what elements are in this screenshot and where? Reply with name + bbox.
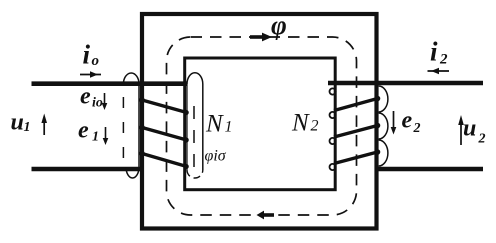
wire bottom-left (N1 to u1) xyxy=(32,167,143,172)
winding N2 turn 3 xyxy=(334,149,380,163)
svg-text:e: e xyxy=(80,84,91,110)
svg-text:2: 2 xyxy=(311,118,319,135)
svg-text:N: N xyxy=(291,110,310,137)
winding N1 turn 1 (bar with junction dots) xyxy=(139,97,189,115)
label u_1 with voltage arrow xyxy=(11,110,48,136)
label i_o with current arrow xyxy=(80,40,101,78)
flux arrow bottom (pointing left) xyxy=(257,211,275,220)
transformer core window (inner outline) xyxy=(185,58,336,190)
flux path phi (dashed loop) xyxy=(167,37,357,215)
svg-text:e: e xyxy=(78,118,89,144)
winding N2 hooks (inner side) xyxy=(330,88,336,170)
wire top-right (N2 to u2) xyxy=(328,81,483,86)
svg-text:2: 2 xyxy=(478,132,486,147)
label N2 xyxy=(291,110,319,137)
label e_2 with arrow xyxy=(391,108,421,137)
winding N2 scallop arcs (outer side) xyxy=(379,86,388,166)
svg-text:φ: φ xyxy=(271,10,287,40)
winding N2 turn 2 xyxy=(334,123,380,137)
svg-text:N: N xyxy=(205,111,224,138)
winding N2 turn 1 (bar with junction dot) xyxy=(334,96,380,111)
svg-text:1: 1 xyxy=(225,119,233,136)
label e_io with arrow xyxy=(80,84,107,111)
winding N1 turn 2 xyxy=(139,125,189,143)
svg-text:io: io xyxy=(92,96,103,111)
svg-text:o: o xyxy=(92,53,100,69)
wire top-left (u1 to N1) xyxy=(32,81,188,86)
label e_1 with arrow xyxy=(78,118,108,146)
winding N1 turn 3 xyxy=(139,151,189,169)
flux arrow top (pointing right) xyxy=(250,33,272,42)
svg-text:e: e xyxy=(402,108,413,134)
transformer core outer outline xyxy=(142,14,377,229)
wire bottom-right (N2 to u2) xyxy=(377,167,484,172)
label phi-i-sigma xyxy=(205,148,227,165)
winding N1 inner envelope (stadium in window) xyxy=(187,73,203,178)
label u_2 with voltage arrow xyxy=(458,115,485,147)
leakage flux dashed line (phi-i-sigma) xyxy=(193,106,195,172)
label N1 xyxy=(205,111,233,138)
svg-text:i: i xyxy=(83,40,91,70)
svg-text:u: u xyxy=(11,110,24,136)
svg-text:2: 2 xyxy=(439,52,448,68)
svg-text:2: 2 xyxy=(413,121,421,136)
svg-text:1: 1 xyxy=(92,130,99,145)
svg-text:u: u xyxy=(463,116,476,142)
label i_2 with current arrow xyxy=(428,37,450,75)
svg-text:1: 1 xyxy=(24,120,31,135)
svg-text:i: i xyxy=(430,37,438,67)
winding N1 outer envelope (stadium, dashed far side) xyxy=(123,73,139,178)
label phi xyxy=(271,10,287,40)
svg-text:φiσ: φiσ xyxy=(205,148,227,165)
